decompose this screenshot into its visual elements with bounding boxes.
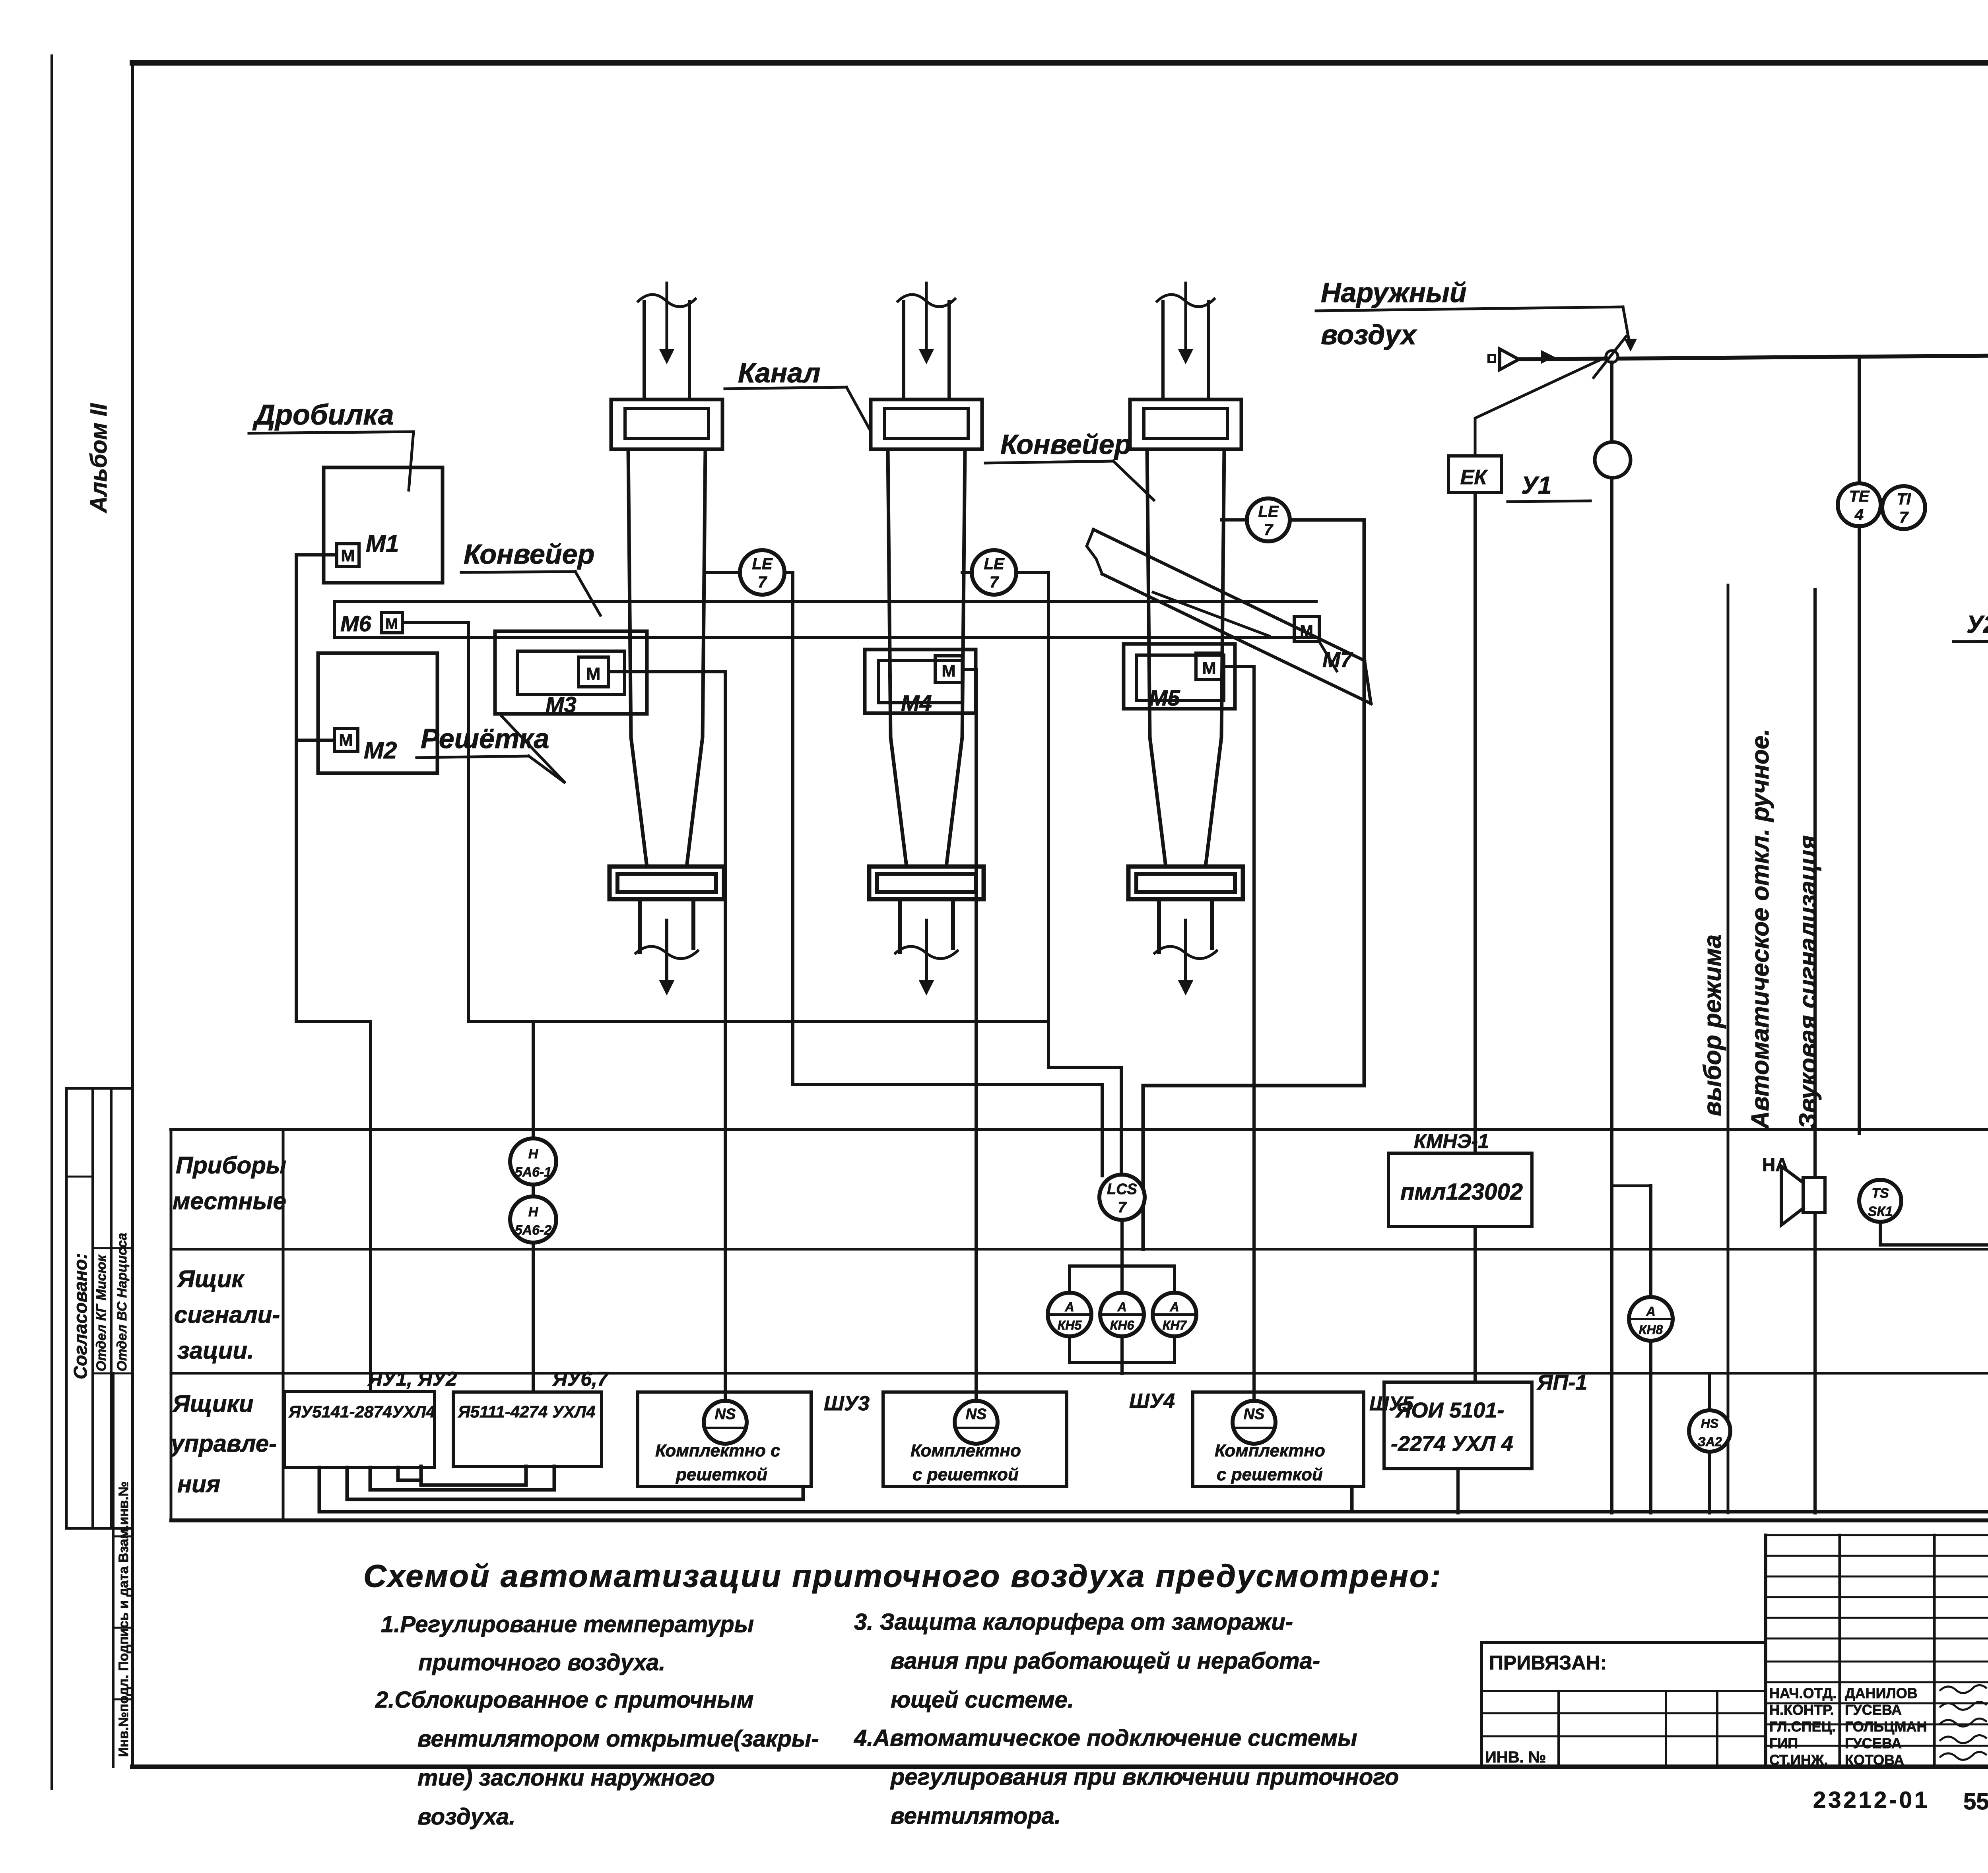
channel funnel 3 top collar — [1130, 399, 1241, 449]
svg-text:ИНВ. №: ИНВ. № — [1485, 1749, 1546, 1766]
channel funnel 2 body — [888, 449, 907, 867]
svg-text:Ящик: Ящик — [177, 1266, 245, 1292]
wire auto/manual line — [1813, 590, 1817, 1179]
sheet outer left edge line — [50, 56, 53, 1789]
svg-text:ЯУ5141-2874УХЛ4: ЯУ5141-2874УХЛ4 — [288, 1402, 435, 1421]
long collector line — [319, 1510, 1988, 1514]
svg-text:М: М — [1300, 622, 1313, 640]
leader Конвейер to strip — [575, 572, 600, 615]
grid box M4 (Reshyotka 2) — [865, 650, 976, 713]
svg-text:М6: М6 — [340, 611, 372, 636]
level controller LCS 7 — [1099, 1175, 1145, 1220]
frame border left — [131, 63, 134, 1767]
level sensor LE 7 on funnel 2 — [972, 550, 1016, 595]
svg-text:NS: NS — [715, 1406, 736, 1423]
svg-text:А: А — [1169, 1300, 1179, 1314]
svg-text:У1: У1 — [1521, 472, 1551, 499]
svg-text:NS: NS — [1244, 1406, 1265, 1423]
row boundary 2-3 — [171, 1372, 1988, 1375]
motor M of M5 — [1196, 653, 1223, 680]
leader Канал — [846, 387, 871, 431]
svg-text:тие) заслонки наружного: тие) заслонки наружного — [417, 1765, 715, 1791]
svg-text:ГУСЕВА: ГУСЕВА — [1845, 1735, 1902, 1751]
wire duct to TE4 — [1858, 357, 1861, 483]
grid box M3 (Reshyotka 1) — [495, 631, 647, 714]
temperature element EK — [1448, 456, 1501, 492]
control box YaU5141 — [285, 1392, 435, 1468]
svg-text:NS: NS — [966, 1406, 987, 1423]
duct flow arrow — [1542, 351, 1553, 363]
svg-text:М3: М3 — [546, 692, 577, 717]
svg-text:М1: М1 — [366, 530, 399, 557]
svg-text:Ящики: Ящики — [172, 1390, 254, 1417]
svg-text:Комплектно с: Комплектно с — [655, 1441, 780, 1460]
alarm manifold bracket bottom — [1068, 1336, 1071, 1363]
svg-text:вентилятора.: вентилятора. — [891, 1803, 1061, 1829]
svg-text:ЗА2: ЗА2 — [1697, 1435, 1722, 1449]
sensor TI 7 — [1882, 486, 1925, 529]
crusher box M2 — [318, 653, 437, 773]
svg-text:LCS: LCS — [1107, 1181, 1137, 1198]
svg-text:Отдел КГ Мисюк: Отдел КГ Мисюк — [94, 1254, 109, 1371]
svg-text:ДАНИЛОВ: ДАНИЛОВ — [1845, 1685, 1918, 1701]
svg-text:Комплектно: Комплектно — [911, 1441, 1021, 1460]
crusher box M1 — [324, 467, 443, 583]
channel funnel 2 bottom collar — [869, 867, 984, 899]
svg-text:НS: НS — [1701, 1416, 1719, 1431]
channel funnel 1 body — [628, 449, 647, 867]
wire hooks from YaU boxes — [318, 1468, 321, 1512]
svg-text:приточного воздуха.: приточного воздуха. — [418, 1650, 666, 1675]
svg-text:КН6: КН6 — [1110, 1318, 1134, 1332]
svg-text:Дробилка: Дробилка — [252, 399, 394, 431]
svg-text:А: А — [1064, 1300, 1074, 1314]
svg-text:ШУ5: ШУ5 — [1369, 1392, 1414, 1415]
channel funnel 3 body — [1147, 449, 1166, 867]
svg-text:Я5111-4274 УХЛ4: Я5111-4274 УХЛ4 — [458, 1402, 596, 1421]
svg-text:Н: Н — [528, 1146, 539, 1161]
wire tap to A KH8 — [1612, 1185, 1651, 1187]
svg-text:воздух: воздух — [1321, 319, 1417, 350]
wire YaOI box to collector — [1456, 1469, 1460, 1513]
wire KMNE-1 to YaOI — [1474, 1227, 1477, 1382]
svg-text:Приборы: Приборы — [176, 1152, 286, 1179]
wire lamp column HA SA6 — [532, 1022, 535, 1392]
svg-text:КН5: КН5 — [1058, 1318, 1082, 1332]
svg-text:ЯП-1: ЯП-1 — [1536, 1371, 1587, 1394]
svg-text:регулирования при включении пр: регулирования при включении приточного — [890, 1764, 1399, 1790]
svg-text:23212-01: 23212-01 — [1813, 1787, 1930, 1813]
svg-text:КМНЭ-1: КМНЭ-1 — [1414, 1130, 1489, 1152]
wire TE4 down to bus — [1858, 526, 1861, 1133]
svg-text:Автоматическое откл. ручное.: Автоматическое откл. ручное. — [1747, 729, 1774, 1130]
svg-text:КОТОВА: КОТОВА — [1845, 1752, 1904, 1768]
svg-text:КН8: КН8 — [1639, 1322, 1663, 1337]
motor M of M4 — [935, 656, 962, 683]
svg-text:SК1: SК1 — [1868, 1204, 1893, 1219]
svg-text:управле-: управле- — [170, 1430, 277, 1457]
wire loop under Ya5111 — [421, 1466, 526, 1485]
svg-text:М2: М2 — [364, 737, 397, 764]
svg-text:ЕК: ЕК — [1460, 466, 1488, 489]
wire TS SK1 to TS SK2 connector — [1880, 1218, 1988, 1245]
channel funnel 1 outlet pipe — [638, 899, 642, 952]
wire mode select line — [1727, 585, 1730, 1513]
svg-text:М: М — [341, 546, 355, 565]
wire enclosure bottom funnels 1-2 — [468, 1020, 1048, 1023]
wire M4 to NS of ShU4 — [962, 669, 976, 1402]
svg-text:М: М — [1202, 659, 1216, 677]
svg-text:НАЧ.ОТД.: НАЧ.ОТД. — [1769, 1685, 1837, 1701]
svg-text:М7: М7 — [1322, 648, 1353, 672]
control box YaOI 5101 — [1384, 1382, 1532, 1469]
svg-text:2.Сблокированное с приточным: 2.Сблокированное с приточным — [375, 1687, 754, 1713]
frame border top — [132, 60, 1988, 66]
motor M of M6 — [381, 613, 402, 633]
row boundary 1-2 — [171, 1248, 1988, 1251]
svg-text:пмл123002: пмл123002 — [1400, 1179, 1523, 1205]
svg-text:3. Защита калорифера от замора: 3. Защита калорифера от заморажи- — [854, 1609, 1293, 1635]
level sensor LE 7 on funnel 3 — [1247, 498, 1290, 541]
outside air duct line — [1519, 355, 1988, 359]
approval stamp table (left margin) — [65, 1088, 68, 1528]
wire M1 to left trunk — [296, 553, 337, 556]
svg-text:зации.: зации. — [177, 1337, 254, 1364]
svg-text:LE: LE — [752, 555, 773, 573]
level sensor LE 7 on funnel 1 — [740, 550, 784, 595]
svg-text:7: 7 — [1118, 1199, 1127, 1216]
tilted conveyor belt — [1093, 529, 1365, 661]
channel funnel 1 top collar — [611, 399, 722, 449]
conveyor M6 strip — [334, 600, 1316, 603]
svg-text:LE: LE — [1258, 503, 1279, 520]
svg-text:ГИП: ГИП — [1769, 1735, 1798, 1751]
rows table label column — [170, 1129, 173, 1520]
wire LE3 down — [1143, 520, 1364, 1249]
rows table bottom — [171, 1518, 1988, 1522]
damper blade slash — [1594, 336, 1626, 378]
svg-text:55: 55 — [1963, 1789, 1988, 1815]
svg-text:ГОЛЬЦМАН: ГОЛЬЦМАН — [1845, 1718, 1927, 1735]
svg-text:Отдел ВС Нарцисса: Отдел ВС Нарцисса — [115, 1233, 130, 1371]
svg-text:Звуковая сигнализация: Звуковая сигнализация — [1794, 835, 1822, 1129]
svg-text:4.Автоматическое подключение с: 4.Автоматическое подключение системы — [854, 1725, 1357, 1751]
actuator U1 bubble — [1595, 442, 1631, 478]
channel funnel 3 inlet pipe — [1161, 301, 1165, 399]
relay box KMNE-1 — [1388, 1153, 1532, 1227]
svg-text:местные: местные — [173, 1188, 286, 1214]
svg-text:решеткой: решеткой — [676, 1465, 767, 1484]
svg-text:СТ.ИНЖ.: СТ.ИНЖ. — [1769, 1752, 1828, 1768]
alarm lamp A KH5 — [1048, 1293, 1091, 1336]
svg-text:Согласовано:: Согласовано: — [70, 1253, 91, 1379]
wire EK down to KMNE-1 — [1474, 492, 1477, 1153]
switch HS SA2 — [1708, 1373, 1711, 1410]
svg-text:с решеткой: с решеткой — [912, 1465, 1019, 1484]
svg-text:КН7: КН7 — [1163, 1318, 1188, 1332]
svg-text:5А6-2: 5А6-2 — [515, 1223, 552, 1238]
svg-text:ТS: ТS — [1872, 1186, 1889, 1201]
svg-text:ТЕ: ТЕ — [1849, 488, 1870, 505]
channel funnel 3 bottom collar — [1128, 867, 1243, 899]
svg-text:М: М — [385, 616, 398, 632]
svg-text:ГЛ.СПЕЦ.: ГЛ.СПЕЦ. — [1769, 1718, 1836, 1735]
channel funnel 3 outlet flow arrow — [1184, 920, 1187, 982]
alarm lamp A KH8 — [1629, 1297, 1673, 1341]
channel funnel 3 outlet pipe — [1157, 899, 1161, 952]
svg-text:Инв.№подл. Подпись и дата Вз: Инв.№подл. Подпись и дата Взам.инв.№ — [116, 1481, 131, 1757]
svg-text:ТI: ТI — [1897, 491, 1911, 508]
wire M6 to bus — [402, 622, 468, 1022]
control box Ya5111 — [453, 1392, 602, 1466]
control box ShU4 — [883, 1392, 1067, 1487]
wire EK to junction — [1475, 357, 1606, 456]
wire M5 to NS of ShU5 — [1223, 667, 1254, 1402]
svg-text:LE: LE — [984, 555, 1004, 573]
svg-text:4: 4 — [1854, 506, 1864, 524]
starter NS of ShU4 — [955, 1401, 998, 1444]
channel funnel 2 inlet flow arrow — [925, 283, 928, 350]
channel funnel 2 top collar — [871, 399, 982, 449]
motor M of M2 — [334, 729, 358, 751]
svg-text:М5: М5 — [1149, 685, 1180, 710]
title block signatures table — [1764, 1535, 1767, 1767]
horn speaker HA — [1803, 1177, 1825, 1212]
svg-text:М: М — [942, 661, 956, 680]
channel funnel 1 bottom collar — [610, 867, 724, 899]
svg-text:НА: НА — [1762, 1154, 1788, 1175]
lamp H 5A6-2 — [510, 1196, 556, 1243]
wire A KH8 down to bus — [1649, 1341, 1652, 1513]
svg-text:ПРИВЯЗАН:: ПРИВЯЗАН: — [1489, 1652, 1607, 1674]
inventory stamp strip (lower left margin) — [112, 1373, 115, 1767]
wire riser box ShU5 — [1350, 1487, 1354, 1512]
channel funnel 1 outlet flow arrow — [665, 920, 668, 982]
thermal switch TS SK1 — [1859, 1180, 1901, 1222]
svg-text:Схемой автоматизации приточн: Схемой автоматизации приточного воздуха … — [363, 1558, 1442, 1594]
svg-text:7: 7 — [1899, 509, 1909, 526]
control box ShU5 — [1193, 1392, 1364, 1487]
svg-text:ШУ3: ШУ3 — [824, 1392, 870, 1415]
svg-text:выбор режима: выбор режима — [1699, 935, 1726, 1116]
svg-text:Конвейер: Конвейер — [1000, 429, 1131, 460]
svg-text:5А6-1: 5А6-1 — [515, 1165, 552, 1180]
alarm lamp A KH6 — [1100, 1293, 1144, 1336]
starter NS of ShU3 — [704, 1401, 747, 1444]
channel funnel 1 inlet flow arrow — [666, 283, 668, 350]
lamp H 5A6-1 — [510, 1138, 556, 1185]
leader Решётка to M3 box — [502, 716, 565, 783]
privyazan box — [1480, 1642, 1483, 1767]
svg-text:Н: Н — [528, 1204, 539, 1220]
channel funnel 2 outlet pipe — [898, 899, 902, 952]
wire LE2 to LCS — [1016, 572, 1121, 1176]
row boundary Приборы местные top — [171, 1128, 1988, 1131]
svg-text:Н.КОНТР.: Н.КОНТР. — [1769, 1702, 1834, 1718]
motor M of M3 — [579, 657, 608, 687]
svg-text:-2274 УХЛ 4: -2274 УХЛ 4 — [1391, 1432, 1513, 1456]
svg-text:воздуха.: воздуха. — [417, 1804, 516, 1830]
title block top line — [171, 1519, 1988, 1522]
svg-text:7: 7 — [990, 574, 999, 591]
control box ShU3 — [638, 1392, 811, 1487]
wire M2 to left trunk — [296, 739, 334, 742]
svg-text:1.Регулирование температуры: 1.Регулирование температуры — [381, 1611, 754, 1637]
wire sound line to horn and bus — [1813, 1212, 1817, 1513]
svg-text:ЯУ1, ЯУ2: ЯУ1, ЯУ2 — [367, 1368, 457, 1390]
wire LCS to alarm manifold — [1120, 1220, 1124, 1266]
svg-text:Конвейер: Конвейер — [464, 539, 594, 570]
alarm manifold bracket top — [1070, 1264, 1175, 1268]
svg-text:вания при работающей и неработ: вания при работающей и неработа- — [891, 1648, 1320, 1674]
motor M of M1 — [337, 544, 359, 566]
svg-text:А: А — [1646, 1304, 1655, 1318]
svg-text:7: 7 — [1264, 521, 1274, 539]
leader Дробилка to M1 — [409, 432, 414, 490]
channel funnel 1 inlet pipe — [643, 301, 646, 399]
channel funnel 2 inlet pipe — [902, 301, 905, 399]
wire junction down to bus — [1610, 362, 1613, 1513]
svg-text:ГУСЕВА: ГУСЕВА — [1845, 1702, 1902, 1718]
svg-text:с решеткой: с решеткой — [1217, 1465, 1323, 1484]
svg-text:ЯУ6,7: ЯУ6,7 — [552, 1368, 609, 1390]
leader Конвейер to tilted belt — [1113, 461, 1154, 500]
svg-text:Комплектно: Комплектно — [1215, 1441, 1325, 1460]
frame border bottom — [132, 1764, 1988, 1769]
svg-text:ния: ния — [177, 1471, 220, 1497]
svg-text:Наружный: Наружный — [1321, 277, 1467, 308]
starter NS of ShU5 — [1233, 1401, 1276, 1444]
air inlet symbol — [1489, 355, 1495, 362]
svg-text:М: М — [339, 731, 353, 749]
wire LE1 to LCS — [784, 572, 1102, 1176]
svg-text:М4: М4 — [901, 690, 932, 715]
leader Наружный воздух arrow — [1623, 307, 1629, 343]
svg-text:М: М — [586, 664, 601, 684]
svg-text:У2: У2 — [1967, 611, 1988, 638]
svg-text:Решётка: Решётка — [421, 723, 549, 754]
svg-text:7: 7 — [758, 574, 767, 591]
channel funnel 3 inlet flow arrow — [1184, 283, 1187, 350]
alarm lamp A KH7 — [1153, 1293, 1196, 1336]
wire M3 to NS of ShU3 — [608, 672, 725, 1402]
channel funnel 2 outlet flow arrow — [925, 920, 928, 982]
svg-text:Канал: Канал — [738, 357, 821, 388]
svg-text:Альбом II: Альбом II — [86, 403, 112, 514]
wire left trunk M1,M2 down to control box YaU1,2 — [296, 555, 371, 1392]
svg-text:вентилятором открытие(закры-: вентилятором открытие(закры- — [417, 1726, 819, 1752]
svg-text:ШУ4: ШУ4 — [1129, 1390, 1175, 1413]
svg-text:ющей системе.: ющей системе. — [891, 1687, 1074, 1713]
svg-text:А: А — [1117, 1300, 1126, 1314]
damper junction node — [1606, 351, 1618, 363]
sensor TE 4 — [1838, 483, 1881, 526]
motor M of M7 — [1294, 617, 1319, 642]
grid box M5 (Reshyotka 3) — [1124, 644, 1235, 709]
svg-text:сигнали-: сигнали- — [174, 1301, 280, 1328]
